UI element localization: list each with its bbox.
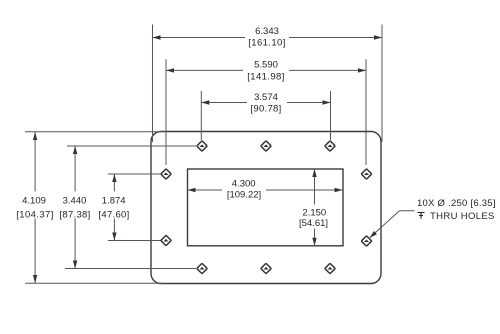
hole H2 top-center	[261, 141, 271, 151]
dimension 4.300 line with arrows	[188, 188, 343, 192]
svg-text:4.109: 4.109	[22, 196, 46, 207]
dimension 3.574 line with arrows and extension lines	[201, 91, 330, 140]
hole H9 bottom-center	[261, 263, 271, 273]
dimension 1.874 line with arrows and extension lines	[108, 174, 161, 241]
svg-text:1.874: 1.874	[102, 196, 126, 207]
hole H10 bottom-right	[325, 263, 335, 273]
hole H8 bottom-left	[197, 263, 207, 273]
plate outline	[151, 132, 381, 284]
dimension 4.109 line with arrows and extension lines	[25, 132, 162, 284]
dimension 4.109 label	[10, 192, 58, 221]
svg-text:10X Ø .250 [6.35]: 10X Ø .250 [6.35]	[417, 198, 496, 209]
svg-text:2.150: 2.150	[302, 208, 326, 219]
inner cutout rectangle	[188, 169, 344, 246]
dimension 5.590 line with arrows and extension lines	[166, 59, 366, 165]
dimension 6.343 line with arrows and extension lines	[153, 25, 383, 143]
svg-text:5.590: 5.590	[254, 60, 278, 71]
svg-text:4.300: 4.300	[232, 179, 256, 190]
dimension 3.440 line with arrows and extension lines	[65, 146, 196, 269]
svg-text:[90.78]: [90.78]	[250, 104, 281, 115]
svg-text:[104.37]: [104.37]	[16, 210, 54, 221]
svg-text:[47.60]: [47.60]	[98, 210, 129, 221]
svg-text:THRU HOLES: THRU HOLES	[430, 211, 495, 222]
svg-text:3.574: 3.574	[254, 92, 278, 103]
dimension 4.300 label	[222, 176, 266, 201]
hole H1 top-left	[197, 141, 207, 151]
hole H7 right-lower	[361, 236, 371, 246]
hole H6 left-lower	[161, 235, 171, 245]
svg-text:[161.10]: [161.10]	[248, 38, 286, 49]
svg-text:[141.98]: [141.98]	[247, 71, 285, 82]
dimension 3.574 label	[247, 89, 287, 115]
svg-text:6.343: 6.343	[255, 26, 279, 37]
dimension 2.150 line with arrows	[312, 169, 316, 246]
hole H3 top-right	[325, 141, 335, 151]
dimension 2.150 label	[296, 205, 333, 230]
note 10X Ø .250 [6.35] THRU HOLES	[417, 198, 496, 222]
svg-text:[109.22]: [109.22]	[227, 190, 261, 201]
dimension 6.343 label	[245, 24, 289, 49]
dimension 5.590 label	[243, 57, 289, 83]
leader line to hole H7	[368, 211, 414, 240]
dimension 1.874 label	[96, 192, 130, 221]
svg-text:[54.61]: [54.61]	[299, 218, 328, 229]
dimension 3.440 label	[57, 192, 91, 221]
hole H5 right-upper	[361, 169, 371, 179]
svg-text:3.440: 3.440	[63, 196, 87, 207]
hole H4 left-upper	[161, 169, 171, 179]
svg-text:[87.38]: [87.38]	[59, 210, 90, 221]
depth symbol before THRU	[418, 213, 425, 219]
